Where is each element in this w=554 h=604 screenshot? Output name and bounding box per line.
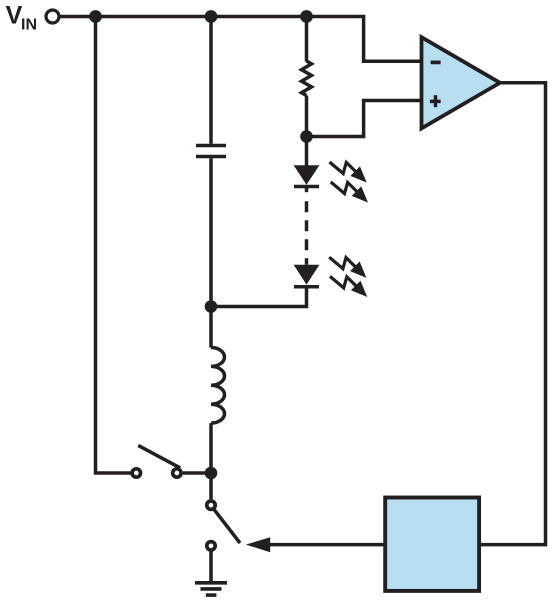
wire: ground lead (209, 552, 213, 583)
wire: capacitor to junction D (209, 158, 213, 306)
switch S2 lower contact (207, 542, 215, 550)
wire: junction D to inductor (209, 307, 213, 348)
wire: junction F down to switch S2 (209, 473, 213, 499)
wire: arrow to control box (269, 543, 385, 547)
photon arrows for D1 (330, 162, 366, 182)
control arrowhead (246, 537, 270, 552)
node: top rail junction B (205, 10, 218, 23)
wire: junction B down to capacitor (209, 17, 213, 144)
op-amp plus sign (430, 100, 441, 104)
wire: junction E to op-amp plus input (307, 101, 422, 137)
op-amp U1 (422, 37, 501, 128)
switch S1 right contact (173, 469, 181, 477)
wire: resistor to junction E (305, 96, 309, 137)
LED D1 (294, 165, 320, 185)
inductor L1 (211, 348, 225, 424)
node: junction E (300, 130, 313, 143)
switch S1 lever (138, 445, 180, 468)
node: top rail junction C (300, 10, 313, 23)
control box U2 (385, 498, 479, 591)
wire: inductor to junction F (209, 423, 213, 473)
svg-text:IN: IN (21, 17, 37, 34)
photon arrows for D2 (329, 257, 365, 277)
node: junction D (205, 300, 218, 313)
dashed wire between LEDs (305, 187, 309, 193)
node: top rail junction A (89, 10, 102, 23)
switch S2 lever (214, 510, 240, 543)
wire: op-amp output to control box (480, 83, 546, 545)
switch S1 left contact (132, 469, 140, 477)
input terminal (46, 10, 59, 23)
wire: LED D2 to junction D (211, 287, 307, 307)
switch S2 upper contact (207, 501, 215, 509)
LED D2 (294, 265, 320, 285)
node: junction F (205, 467, 218, 480)
wire: S1 right contact to junction F (183, 471, 211, 475)
wire: junction E down to LED D1 (305, 137, 309, 167)
op-amp minus sign (431, 61, 441, 65)
wire: junction C down to resistor (305, 17, 309, 62)
wire: left branch down to switch S1 (96, 17, 131, 474)
ground (195, 581, 227, 585)
resistor R1 (302, 61, 312, 96)
wire: top rail to op-amp minus input (60, 17, 422, 62)
capacitor C1 (196, 144, 226, 148)
